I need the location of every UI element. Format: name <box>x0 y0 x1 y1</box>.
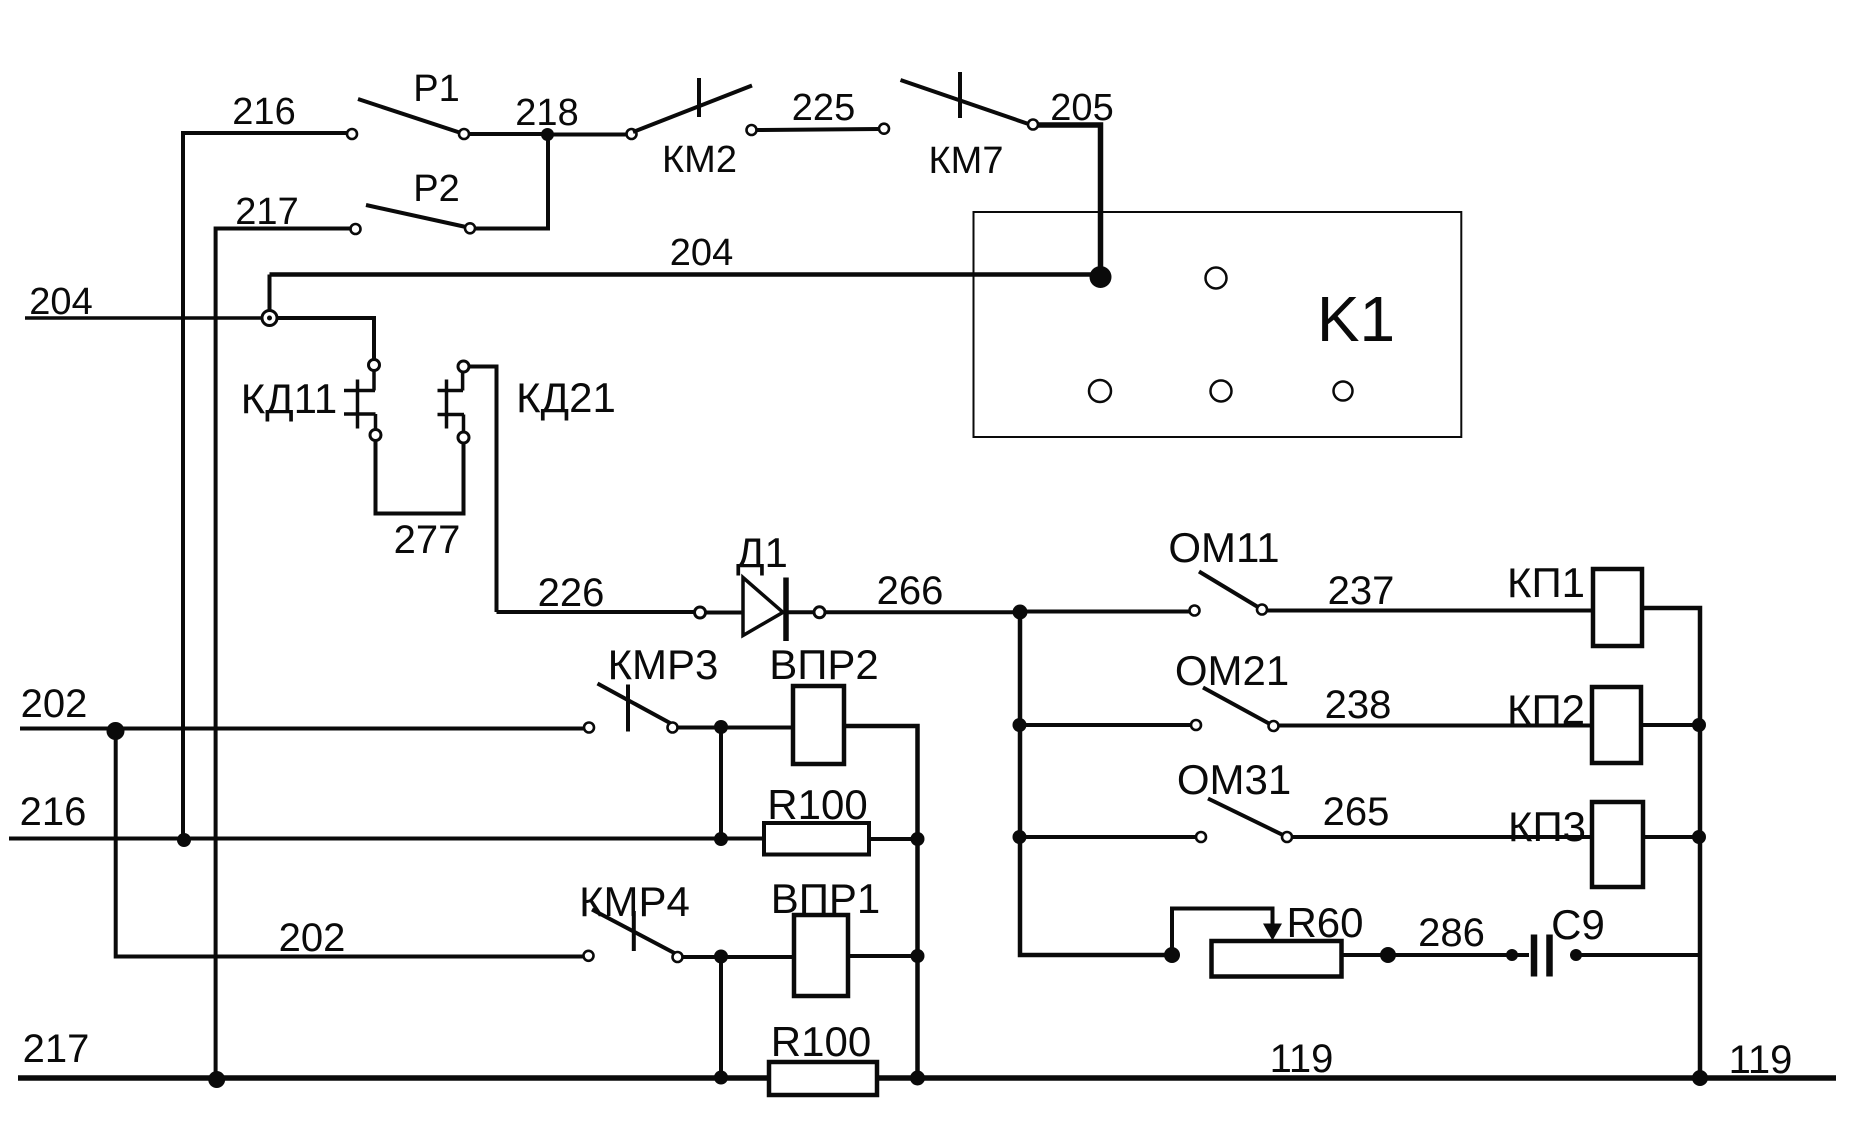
K1 contact circle top <box>1206 268 1227 289</box>
svg-text:217: 217 <box>235 191 298 233</box>
svg-text:286: 286 <box>1418 911 1485 955</box>
svg-text:КП3: КП3 <box>1508 803 1586 850</box>
wire ВПР2 to mid bus <box>844 726 918 1078</box>
wire 225 <box>757 129 880 130</box>
node: 216 bus to 216 line <box>177 833 191 847</box>
contact КД11 <box>344 360 381 441</box>
node right bus to КП3 <box>1692 830 1706 844</box>
svg-text:202: 202 <box>21 682 88 726</box>
wire 204 riser <box>268 275 272 314</box>
svg-text:ОМ11: ОМ11 <box>1168 524 1279 571</box>
K1 contact circle bottom 2 <box>1211 381 1232 402</box>
wire 204 main <box>270 272 1099 277</box>
svg-text:ВПР2: ВПР2 <box>769 641 879 688</box>
potentiometer R60 body <box>1212 941 1342 977</box>
node C9 right <box>1570 949 1582 961</box>
contact ОМ21 <box>1191 688 1279 732</box>
wire 119 bottom line <box>18 1075 1836 1081</box>
node right bus to КП2 <box>1692 718 1706 732</box>
node 266 junction <box>1013 605 1028 620</box>
wire КП2 to bus <box>1641 723 1695 727</box>
wire C9 to right bus <box>1581 953 1698 957</box>
svg-text:R60: R60 <box>1286 899 1363 946</box>
svg-text:204: 204 <box>670 232 733 274</box>
svg-text:119: 119 <box>1729 1038 1793 1082</box>
svg-text:216: 216 <box>20 790 87 834</box>
svg-text:КП2: КП2 <box>1507 686 1585 733</box>
wire КД21 to 226 <box>469 367 497 613</box>
node 204 tap <box>262 311 277 326</box>
svg-text:226: 226 <box>538 571 605 615</box>
svg-text:217: 217 <box>23 1027 90 1071</box>
svg-text:ОМ21: ОМ21 <box>1175 647 1289 694</box>
svg-text:КМР4: КМР4 <box>579 878 690 925</box>
node 286 left <box>1380 947 1396 963</box>
resistor R100 upper <box>764 823 869 855</box>
wire 238 <box>1279 724 1593 728</box>
svg-text:ВПР1: ВПР1 <box>771 875 881 922</box>
relay coil ВПР2 <box>793 686 844 764</box>
svg-text:КД11: КД11 <box>241 375 338 422</box>
svg-text:Р1: Р1 <box>413 68 459 110</box>
wire 286 <box>1388 953 1508 957</box>
svg-text:C9: C9 <box>1551 901 1605 948</box>
svg-text:266: 266 <box>877 569 944 613</box>
relay K1 box <box>974 212 1462 437</box>
svg-text:КМ7: КМ7 <box>929 140 1004 182</box>
contact КМР3 <box>584 684 678 733</box>
node C9 left <box>1506 949 1518 961</box>
K1 contact circle bottom 3 <box>1334 382 1353 401</box>
svg-text:204: 204 <box>29 281 92 323</box>
wire to ОМ31 <box>1020 835 1196 839</box>
svg-text:R100: R100 <box>771 1018 871 1065</box>
wire КП3 to bus <box>1643 835 1695 839</box>
svg-text:КМР3: КМР3 <box>608 641 719 688</box>
wire link КМР3 to 216 line <box>719 727 723 840</box>
node R60 tap <box>1164 947 1180 963</box>
contact KM2 <box>627 78 757 139</box>
wire КМР4 to ВПР1 <box>683 955 793 959</box>
wire 217 top bus <box>216 229 352 1079</box>
svg-text:ОМ31: ОМ31 <box>1177 756 1291 803</box>
wire 237 <box>1267 609 1593 613</box>
wire to ОМ11 <box>1020 610 1190 614</box>
wire 277 U-link <box>376 441 464 514</box>
node mid bus to bottom line <box>910 1071 925 1086</box>
node K1 input (204/205) <box>1090 266 1112 288</box>
node mid bus to ВПР1 <box>911 949 925 963</box>
wire 216 top bus <box>183 133 347 840</box>
wire КМР3 to ВПР2 <box>678 726 792 730</box>
svg-text:218: 218 <box>515 92 578 134</box>
svg-text:238: 238 <box>1325 683 1392 727</box>
wire 265 <box>1292 835 1592 839</box>
node bus to ОМ21 <box>1013 718 1027 732</box>
svg-text:R100: R100 <box>767 781 867 828</box>
svg-text:225: 225 <box>792 87 855 129</box>
wire 204 left stub <box>25 316 263 320</box>
K1 contact circle bottom 1 <box>1089 380 1111 402</box>
wire 202 <box>20 727 584 731</box>
wire R100 upper out <box>869 837 914 841</box>
node link to bottom line <box>714 1071 728 1085</box>
svg-text:237: 237 <box>1328 569 1395 613</box>
wire to ОМ21 <box>1020 723 1191 727</box>
wire ВПР1 to mid bus <box>848 954 915 958</box>
capacitor C9 <box>1517 935 1550 977</box>
wire 202 drop bus <box>116 731 583 957</box>
node link to 216 line <box>714 832 728 846</box>
svg-text:КД21: КД21 <box>516 374 616 421</box>
wire 204 tap to КД11 <box>276 318 374 360</box>
relay coil ВПР1 <box>794 915 848 996</box>
potentiometer R60 wiper <box>1172 909 1273 956</box>
svg-text:КП1: КП1 <box>1507 559 1585 606</box>
wire 266 <box>825 610 1016 614</box>
wire right bus <box>1642 608 1700 1074</box>
contact КД21 <box>438 361 470 443</box>
switch P1 <box>347 99 469 139</box>
wire P1 to node 218 <box>469 132 545 136</box>
node after КМР4 <box>714 950 728 964</box>
wire 218 to KM2 <box>548 133 628 137</box>
svg-text:265: 265 <box>1323 790 1390 834</box>
contact ОМ31 <box>1196 799 1292 843</box>
contact КМР4 <box>584 910 683 963</box>
node after КМР3 <box>714 720 728 734</box>
svg-text:216: 216 <box>232 91 295 133</box>
wire left distribution bus <box>1020 612 1166 955</box>
diode Д1 <box>695 578 826 642</box>
resistor R100 lower <box>769 1062 877 1095</box>
node mid bus to R100 <box>911 832 925 846</box>
svg-text:119: 119 <box>1270 1037 1334 1081</box>
node 217 bus to bottom line <box>208 1071 225 1088</box>
relay coil КП3 <box>1592 802 1643 887</box>
node bus to ОМ31 <box>1013 830 1027 844</box>
wire 226 <box>497 610 695 614</box>
wire 216 <box>9 837 764 841</box>
node 202 tap <box>107 722 125 740</box>
wire R60 out <box>1342 953 1385 957</box>
contact KM7 <box>879 72 1038 134</box>
relay coil КП2 <box>1592 687 1641 763</box>
node right bus to bottom line <box>1692 1070 1708 1086</box>
wire link КМР4 to bottom line <box>719 957 723 1079</box>
relay coil КП1 <box>1593 569 1642 646</box>
wire 205 <box>1038 125 1101 277</box>
svg-text:КМ2: КМ2 <box>662 139 737 181</box>
svg-text:205: 205 <box>1050 87 1113 129</box>
wire P2 to node 218 <box>475 140 548 229</box>
svg-text:K1: K1 <box>1317 283 1395 355</box>
svg-text:Д1: Д1 <box>736 529 788 576</box>
switch P2 <box>351 205 476 234</box>
svg-text:202: 202 <box>279 916 346 960</box>
contact ОМ11 <box>1190 572 1268 616</box>
node 218 <box>541 128 554 141</box>
svg-text:277: 277 <box>394 518 461 562</box>
svg-text:Р2: Р2 <box>413 168 459 210</box>
